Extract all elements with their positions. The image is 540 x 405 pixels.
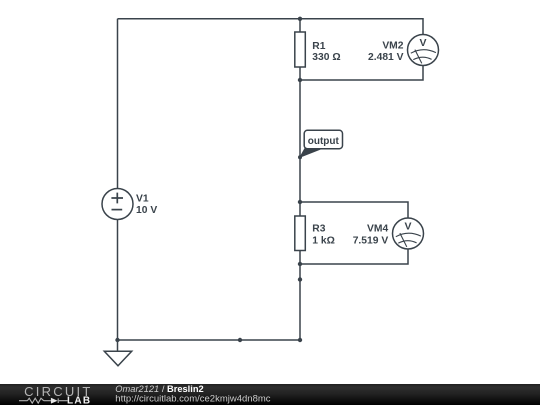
voltmeter VM2 [368,35,439,66]
footer bar [0,384,540,405]
svg-text:LAB: LAB [67,396,91,405]
V1 minus mark [112,209,123,211]
wire bottom horizontal [118,339,301,341]
resistor R3 body [295,216,306,251]
ground lead [117,340,119,351]
footer logo wire-resistor-diode [19,398,68,403]
wire R3 bottom lead [299,251,301,265]
svg-text:VM4: VM4 [367,224,388,235]
svg-text:R3: R3 [312,224,325,235]
resistor R1 [295,32,341,67]
wire R1 bottom lead [299,67,301,80]
source V1 body [102,189,133,220]
voltmeter VM4 [353,218,424,249]
wire VM2 bottom [300,66,423,81]
node junction bottom left [115,338,119,342]
node output tap [298,155,302,159]
VM4 meter scale arcs and needle [396,233,421,237]
VM2 meter scale arcs and needle [411,50,436,54]
V1 plus mark [111,193,123,204]
ground [104,340,131,366]
node junction bottom mid [238,338,242,342]
node junction R1 bottom [298,78,302,82]
footer logo diode triangle [51,398,58,404]
wire left vertical upper [117,19,119,189]
svg-text:http://circuitlab.com/ce2kmjw4: http://circuitlab.com/ce2kmjw4dn8mc [115,394,270,405]
wire R3 top lead [299,202,301,216]
wire lower vertical to bottom [299,264,301,340]
wire middle vertical (output net) [299,80,301,202]
svg-text:Omar2121 / Breslin2: Omar2121 / Breslin2 [115,384,203,394]
svg-text:1 kΩ: 1 kΩ [312,235,335,246]
wire VM4 top [300,202,408,218]
output flag pointer [300,148,320,157]
node junction R3 top [298,200,302,204]
output flag box [304,130,342,148]
svg-text:V1: V1 [136,194,149,205]
wire VM4 bottom [300,249,408,264]
wire top horizontal [118,18,424,20]
wire R1 top lead [299,19,301,32]
resistor R1 body [295,32,306,67]
svg-text:330 Ω: 330 Ω [312,52,340,63]
node junction lower mid [298,277,302,281]
svg-text:10 V: 10 V [136,205,157,216]
node junction top (R1/VM2 tap) [298,17,302,21]
node junction R3 bottom [298,262,302,266]
wire left vertical lower [117,220,119,341]
node label output [300,130,343,157]
voltmeter VM2 body [408,35,439,66]
voltmeter VM4 body [393,218,424,249]
svg-text:2.481 V: 2.481 V [368,52,404,63]
ground triangle [104,351,131,366]
svg-text:V: V [404,220,411,232]
node junction bottom right [298,338,302,342]
wire VM2 top [300,19,423,35]
svg-text:output: output [308,136,340,147]
svg-text:R1: R1 [312,41,325,52]
resistor R3 [295,216,335,251]
voltage source V1 [102,189,157,220]
svg-text:VM2: VM2 [382,40,403,51]
svg-text:7.519 V: 7.519 V [353,235,389,246]
svg-text:V: V [419,37,426,49]
